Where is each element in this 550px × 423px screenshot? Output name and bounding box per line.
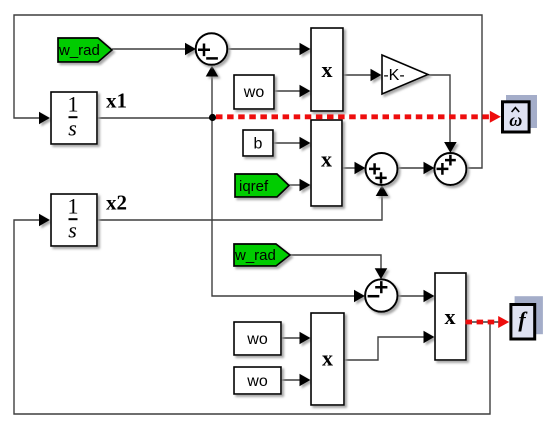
svg-text:wo: wo bbox=[246, 331, 268, 348]
svg-text:ω: ω bbox=[509, 110, 522, 130]
svg-text:b: b bbox=[254, 136, 263, 153]
svg-text:x: x bbox=[322, 346, 333, 371]
svg-text:w_rad: w_rad bbox=[234, 247, 276, 264]
svg-text:-K-: -K- bbox=[383, 67, 404, 84]
svg-text:wo: wo bbox=[246, 373, 268, 390]
svg-text:w_rad: w_rad bbox=[58, 42, 100, 59]
svg-text:wo: wo bbox=[243, 84, 265, 101]
svg-text:x2: x2 bbox=[106, 191, 127, 215]
svg-text:x: x bbox=[322, 57, 333, 82]
svg-text:x: x bbox=[321, 147, 332, 172]
svg-text:s: s bbox=[68, 218, 77, 243]
svg-text:1: 1 bbox=[68, 92, 79, 117]
svg-text:x: x bbox=[445, 304, 456, 329]
svg-text:x1: x1 bbox=[106, 89, 127, 113]
svg-text:1: 1 bbox=[68, 194, 79, 219]
svg-text:iqref: iqref bbox=[239, 178, 269, 195]
svg-text:s: s bbox=[68, 116, 77, 141]
